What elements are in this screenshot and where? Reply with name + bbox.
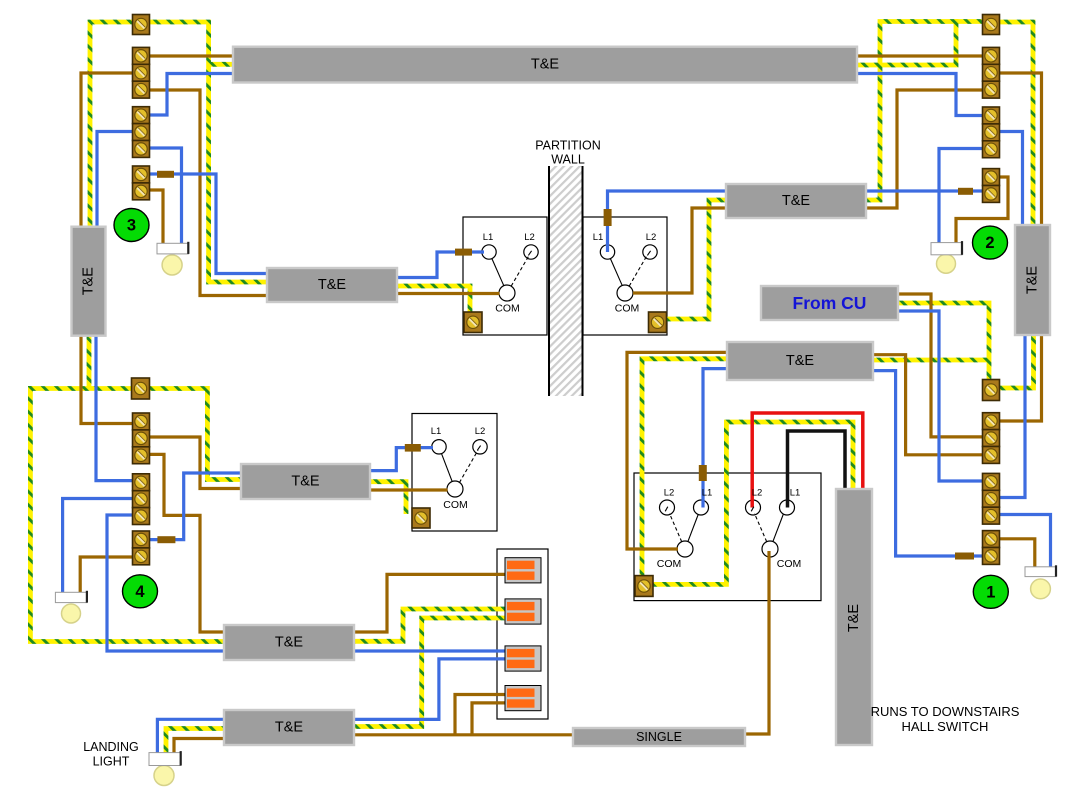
wire brown rose3 switchwire to boxM <box>150 90 269 296</box>
svg-text:T&E: T&E <box>782 193 811 209</box>
wire earth boxR to top loop <box>866 22 983 201</box>
switch alt-pole SW_R <box>629 256 647 287</box>
switch pole SW_L <box>492 259 504 286</box>
svg-text:L1: L1 <box>431 426 442 437</box>
terminal block rose1 live <box>983 413 1000 464</box>
wire brown boxCU to SW_D1 COM <box>627 352 727 549</box>
wire blue box4 to strip3 <box>354 659 506 720</box>
wire brown rose3 feed to top cable <box>150 54 235 57</box>
svg-text:T&E: T&E <box>531 57 560 73</box>
switch contact SW_L L2 <box>524 245 538 259</box>
wire blue rose4 to box3 <box>107 515 225 651</box>
wire brown SW_D2 COM to SINGLE <box>745 551 769 734</box>
marker number 2 <box>973 226 1008 259</box>
switch contact SW_S L2 <box>473 440 487 454</box>
terminal block rose4 earth <box>132 378 150 399</box>
switch pole SW_D2 <box>773 515 783 542</box>
junction terminal strip strip2 <box>505 599 541 624</box>
wire blue top cable to rose2 <box>856 74 983 116</box>
wire blue rose1 to lamp1 <box>1000 515 1051 569</box>
cable sheath left vertical T&E cable <box>72 227 106 336</box>
marker number 1 <box>973 575 1008 608</box>
switch contact SW_D1 L2 <box>660 500 675 515</box>
connector rod SW_S L1 <box>405 444 421 452</box>
wire earth horizontal through rose 4 terminal <box>30 386 207 391</box>
terminal block rose3 earth <box>133 15 150 35</box>
terminal block SW_S earth <box>412 508 430 528</box>
wire earth down to cable 2 <box>207 386 242 480</box>
wire earth double terminal loop to hall cable <box>653 422 853 584</box>
wire blue right vbar to rose1 <box>1000 335 1026 498</box>
cable sheath boxCU T&E cable <box>727 342 873 380</box>
terminal block rose1 switched <box>983 531 1000 565</box>
connector rod SW_R L1 <box>604 209 612 226</box>
terminal block rose4 live <box>133 413 150 464</box>
svg-text:L1: L1 <box>702 488 713 499</box>
terminal block rose3 live loop <box>133 47 150 98</box>
wire brown rose4 to cable2 <box>150 437 243 489</box>
cable sheath boxR T&E cable <box>726 184 866 218</box>
cable sheath right vertical T&E cable <box>1015 225 1050 335</box>
wire brown right vbar to rose1 <box>1000 335 1042 421</box>
terminal block rose3 neutral <box>133 107 150 158</box>
terminal block rose4 switched <box>133 531 150 565</box>
switch L2 tick SW_D2 <box>751 507 754 512</box>
wire blue rose4 switchline to cable2 <box>133 473 243 540</box>
wire earth box3 to strip2 <box>354 609 506 641</box>
terminal block rose2 switched <box>983 169 1000 203</box>
cable sheath From CU cable <box>761 286 898 320</box>
switch alt-pole SW_D1 <box>670 514 682 542</box>
svg-text:L2: L2 <box>646 232 657 243</box>
switch contact SW_D2 L2 <box>746 500 761 515</box>
marker number 3 <box>114 209 149 242</box>
cable sheath cable2 T&E <box>241 464 370 499</box>
marker number 4 <box>123 575 158 608</box>
svg-text:T&E: T&E <box>786 353 815 369</box>
wire brown box3 to strip1 <box>354 574 506 632</box>
switch L2 tick SW_D1 <box>665 507 668 512</box>
connector rod rose1 switchline <box>955 553 974 560</box>
svg-text:LIGHT: LIGHT <box>93 755 130 769</box>
wire red SW_D2 L2 to hall cable <box>752 413 863 508</box>
connector rod rose4 switchline <box>157 536 175 543</box>
junction terminal strip strip1 <box>505 558 541 583</box>
wire earth cable2 to bedroom switch terminal <box>370 482 406 514</box>
wire blue boxCU to rose1 switchline <box>873 371 983 556</box>
wire brown rose3 to lamp3 <box>150 190 164 245</box>
enclosure bedroom switch box <box>412 414 497 532</box>
switch contact SW_S L1 <box>432 440 446 454</box>
cable sheath top T&E cable <box>233 47 857 83</box>
wire brown From CU to rose1 <box>898 294 983 437</box>
svg-text:3: 3 <box>127 217 136 235</box>
wire blue cable2 to SW_S L1 <box>370 448 433 471</box>
terminal block rose2 live <box>983 47 1000 98</box>
wire blue box3 to strip3 <box>354 649 506 652</box>
enclosure left landing switch box <box>463 217 547 335</box>
svg-text:From CU: From CU <box>793 293 867 313</box>
wire brown strip4 link B <box>472 703 506 735</box>
wire brown boxR to rose2 terminal <box>866 90 983 208</box>
terminal block rose2 neutral <box>983 107 1000 158</box>
lamp lamp4 <box>55 591 87 623</box>
connector rod rose3 switchline <box>157 171 174 178</box>
terminal block SW_D earth <box>635 576 653 597</box>
wire blue boxR to SW_R L1 <box>608 191 727 252</box>
svg-text:COM: COM <box>657 558 682 570</box>
wire brown box4 to landing light <box>174 739 224 755</box>
svg-text:LANDING: LANDING <box>83 740 139 754</box>
wire earth branch into top cable <box>209 62 235 67</box>
junction terminal strip strip4 <box>505 686 541 711</box>
enclosure right landing switch box <box>583 217 667 335</box>
lamp lamp1 <box>1025 565 1056 599</box>
svg-text:HALL SWITCH: HALL SWITCH <box>902 719 989 734</box>
switch alt-pole SW_L <box>511 256 529 287</box>
switch contact SW_R L1 <box>600 245 614 259</box>
terminal block rose1 neutral <box>983 473 1000 524</box>
wire earth top right terminal down right side <box>1000 22 1034 225</box>
wire blue top cable to rose3 <box>150 74 235 116</box>
wire earth boxCU right to terminal <box>873 358 991 363</box>
svg-text:T&E: T&E <box>291 474 320 490</box>
svg-text:L1: L1 <box>790 488 801 499</box>
svg-text:L2: L2 <box>664 488 675 499</box>
svg-text:RUNS TO DOWNSTAIRS: RUNS TO DOWNSTAIRS <box>871 704 1020 719</box>
terminal block rose3 switched <box>133 166 150 200</box>
svg-text:SINGLE: SINGLE <box>636 730 682 744</box>
wire blue rose3 switchline to boxM <box>150 174 269 274</box>
wire brown cable2 to SW_S COM <box>370 488 448 491</box>
wire brown rose4 to lamp4 <box>80 557 132 594</box>
terminal block rose2 earth <box>983 15 1000 35</box>
wire blue From CU to rose1 <box>898 311 983 481</box>
svg-text:T&E: T&E <box>318 277 347 293</box>
cable sheath SINGLE cable <box>573 728 745 746</box>
switch contact SW_R L2 <box>643 245 657 259</box>
wire brown boxM to SW_L COM <box>397 292 500 295</box>
wire blue rose2 to lamp2 <box>939 149 983 245</box>
svg-text:COM: COM <box>443 499 468 511</box>
wire brown rose3 loop to left vbar <box>81 73 133 227</box>
switch contact SW_D1 L1 <box>694 500 709 515</box>
wire blue boxCU to SW_D1 L1 <box>703 369 727 508</box>
wire earth outer left loop to box3 <box>30 386 225 642</box>
wire blue rose3 to lamp3 <box>150 148 182 244</box>
terminal block rose4 neutral <box>133 474 150 525</box>
wire blue boxR to rose2 link <box>866 189 983 192</box>
svg-text:WALL: WALL <box>551 153 585 167</box>
svg-text:COM: COM <box>615 303 640 315</box>
cable sheath box3 T&E cable <box>224 625 354 660</box>
switch contact SW_D1 COM <box>677 541 693 557</box>
switch contact SW_R COM <box>617 285 633 301</box>
partition wall <box>549 166 583 396</box>
wire brown left vbar to rose4 <box>81 336 133 424</box>
switch contact SW_S COM <box>447 481 463 497</box>
wire blue left vbar to rose4 <box>96 336 133 481</box>
svg-text:L2: L2 <box>475 426 486 437</box>
switch contact SW_L COM <box>499 285 515 301</box>
wire earth From CU to terminal <box>898 303 989 384</box>
wire earth top cable to loop <box>857 19 956 65</box>
wire earth top-left from ceiling rose A <box>90 22 133 227</box>
wire blue boxM to SW_L L1 <box>397 252 484 278</box>
svg-text:L1: L1 <box>593 232 604 243</box>
lamp lamp3 <box>157 242 188 275</box>
wire brown rose1 to lamp1 <box>1000 539 1035 568</box>
wire earth box4 to strip2 <box>354 618 506 727</box>
svg-text:T&E: T&E <box>81 267 97 296</box>
svg-text:T&E: T&E <box>275 635 304 651</box>
svg-text:COM: COM <box>495 303 520 315</box>
wire blue rose3 to left vbar <box>97 132 133 228</box>
enclosure junction box <box>497 549 548 719</box>
svg-text:COM: COM <box>777 558 802 570</box>
wire brown strip4 link A <box>455 695 506 735</box>
wire earth right vbar to single terminal <box>1000 335 1034 388</box>
wire blue rose4 to lamp4 <box>63 499 133 595</box>
switch pole SW_S <box>442 454 453 482</box>
svg-text:T&E: T&E <box>275 720 304 736</box>
wire brown rose4 to box3 <box>150 454 226 632</box>
svg-text:L1: L1 <box>483 232 494 243</box>
svg-text:1: 1 <box>986 583 995 601</box>
switch contact SW_L L1 <box>482 245 496 259</box>
cable sheath box4 T&E cable <box>224 710 354 745</box>
connector rod rose2 link <box>958 188 973 195</box>
svg-text:T&E: T&E <box>846 604 862 633</box>
svg-text:PARTITION: PARTITION <box>535 139 601 153</box>
wire blue rose2 to right vbar <box>1000 132 1023 226</box>
switch L2 tick SW_L <box>528 251 531 256</box>
wire earth top-left to cable and box M <box>149 22 268 282</box>
terminal block SW_R earth <box>649 312 667 333</box>
cable sheath hall switch T&E cable <box>836 489 872 745</box>
wire earth boxM to SW_L terminal <box>397 286 470 318</box>
wire brown boxCU to rose1 <box>873 355 983 455</box>
switch alt-pole SW_D2 <box>755 514 767 542</box>
lamp landing lamp <box>149 751 181 785</box>
wire earth boxCU left to double box terminal <box>642 359 727 581</box>
wire black SW_D2 L1 to hall cable <box>788 431 846 508</box>
wire brown rose2 to lamp2 <box>956 177 1008 244</box>
connector rod SW_D1 L1 <box>699 465 707 481</box>
svg-text:L2: L2 <box>524 232 535 243</box>
svg-text:T&E: T&E <box>1025 266 1041 295</box>
terminal block SW_L earth <box>464 312 482 333</box>
wire brown rose2 to right vbar <box>1000 73 1042 225</box>
switch L2 tick SW_S <box>477 446 480 451</box>
switch pole SW_D1 <box>688 515 698 542</box>
wire brown top cable to rose2 <box>856 54 983 57</box>
junction terminal strip strip3 <box>505 646 541 671</box>
switch contact SW_D2 L1 <box>780 500 795 515</box>
wire brown SW_R COM to boxR <box>633 208 726 293</box>
svg-text:4: 4 <box>135 583 145 601</box>
cable sheath boxM T&E cable <box>267 268 397 302</box>
lamp lamp2 <box>931 241 962 273</box>
switch pole SW_R <box>610 259 622 286</box>
svg-text:2: 2 <box>985 234 994 252</box>
wire earth SW_R terminal to boxR <box>667 200 726 319</box>
wire brown box4 to SINGLE cable <box>354 733 573 736</box>
enclosure double switch box <box>634 473 821 601</box>
switch alt-pole SW_S <box>459 450 478 482</box>
connector rod SW_L L1 <box>455 249 472 256</box>
svg-text:L2: L2 <box>752 488 763 499</box>
wire earth left vbar to terminal strip run <box>87 336 92 389</box>
switch contact SW_D2 COM <box>762 541 778 557</box>
wire earth box4 to landing light <box>166 729 224 755</box>
switch L2 tick SW_R <box>647 251 650 256</box>
wire blue box4 to landing light <box>157 719 224 754</box>
terminal block rose1 earth <box>983 380 1000 401</box>
